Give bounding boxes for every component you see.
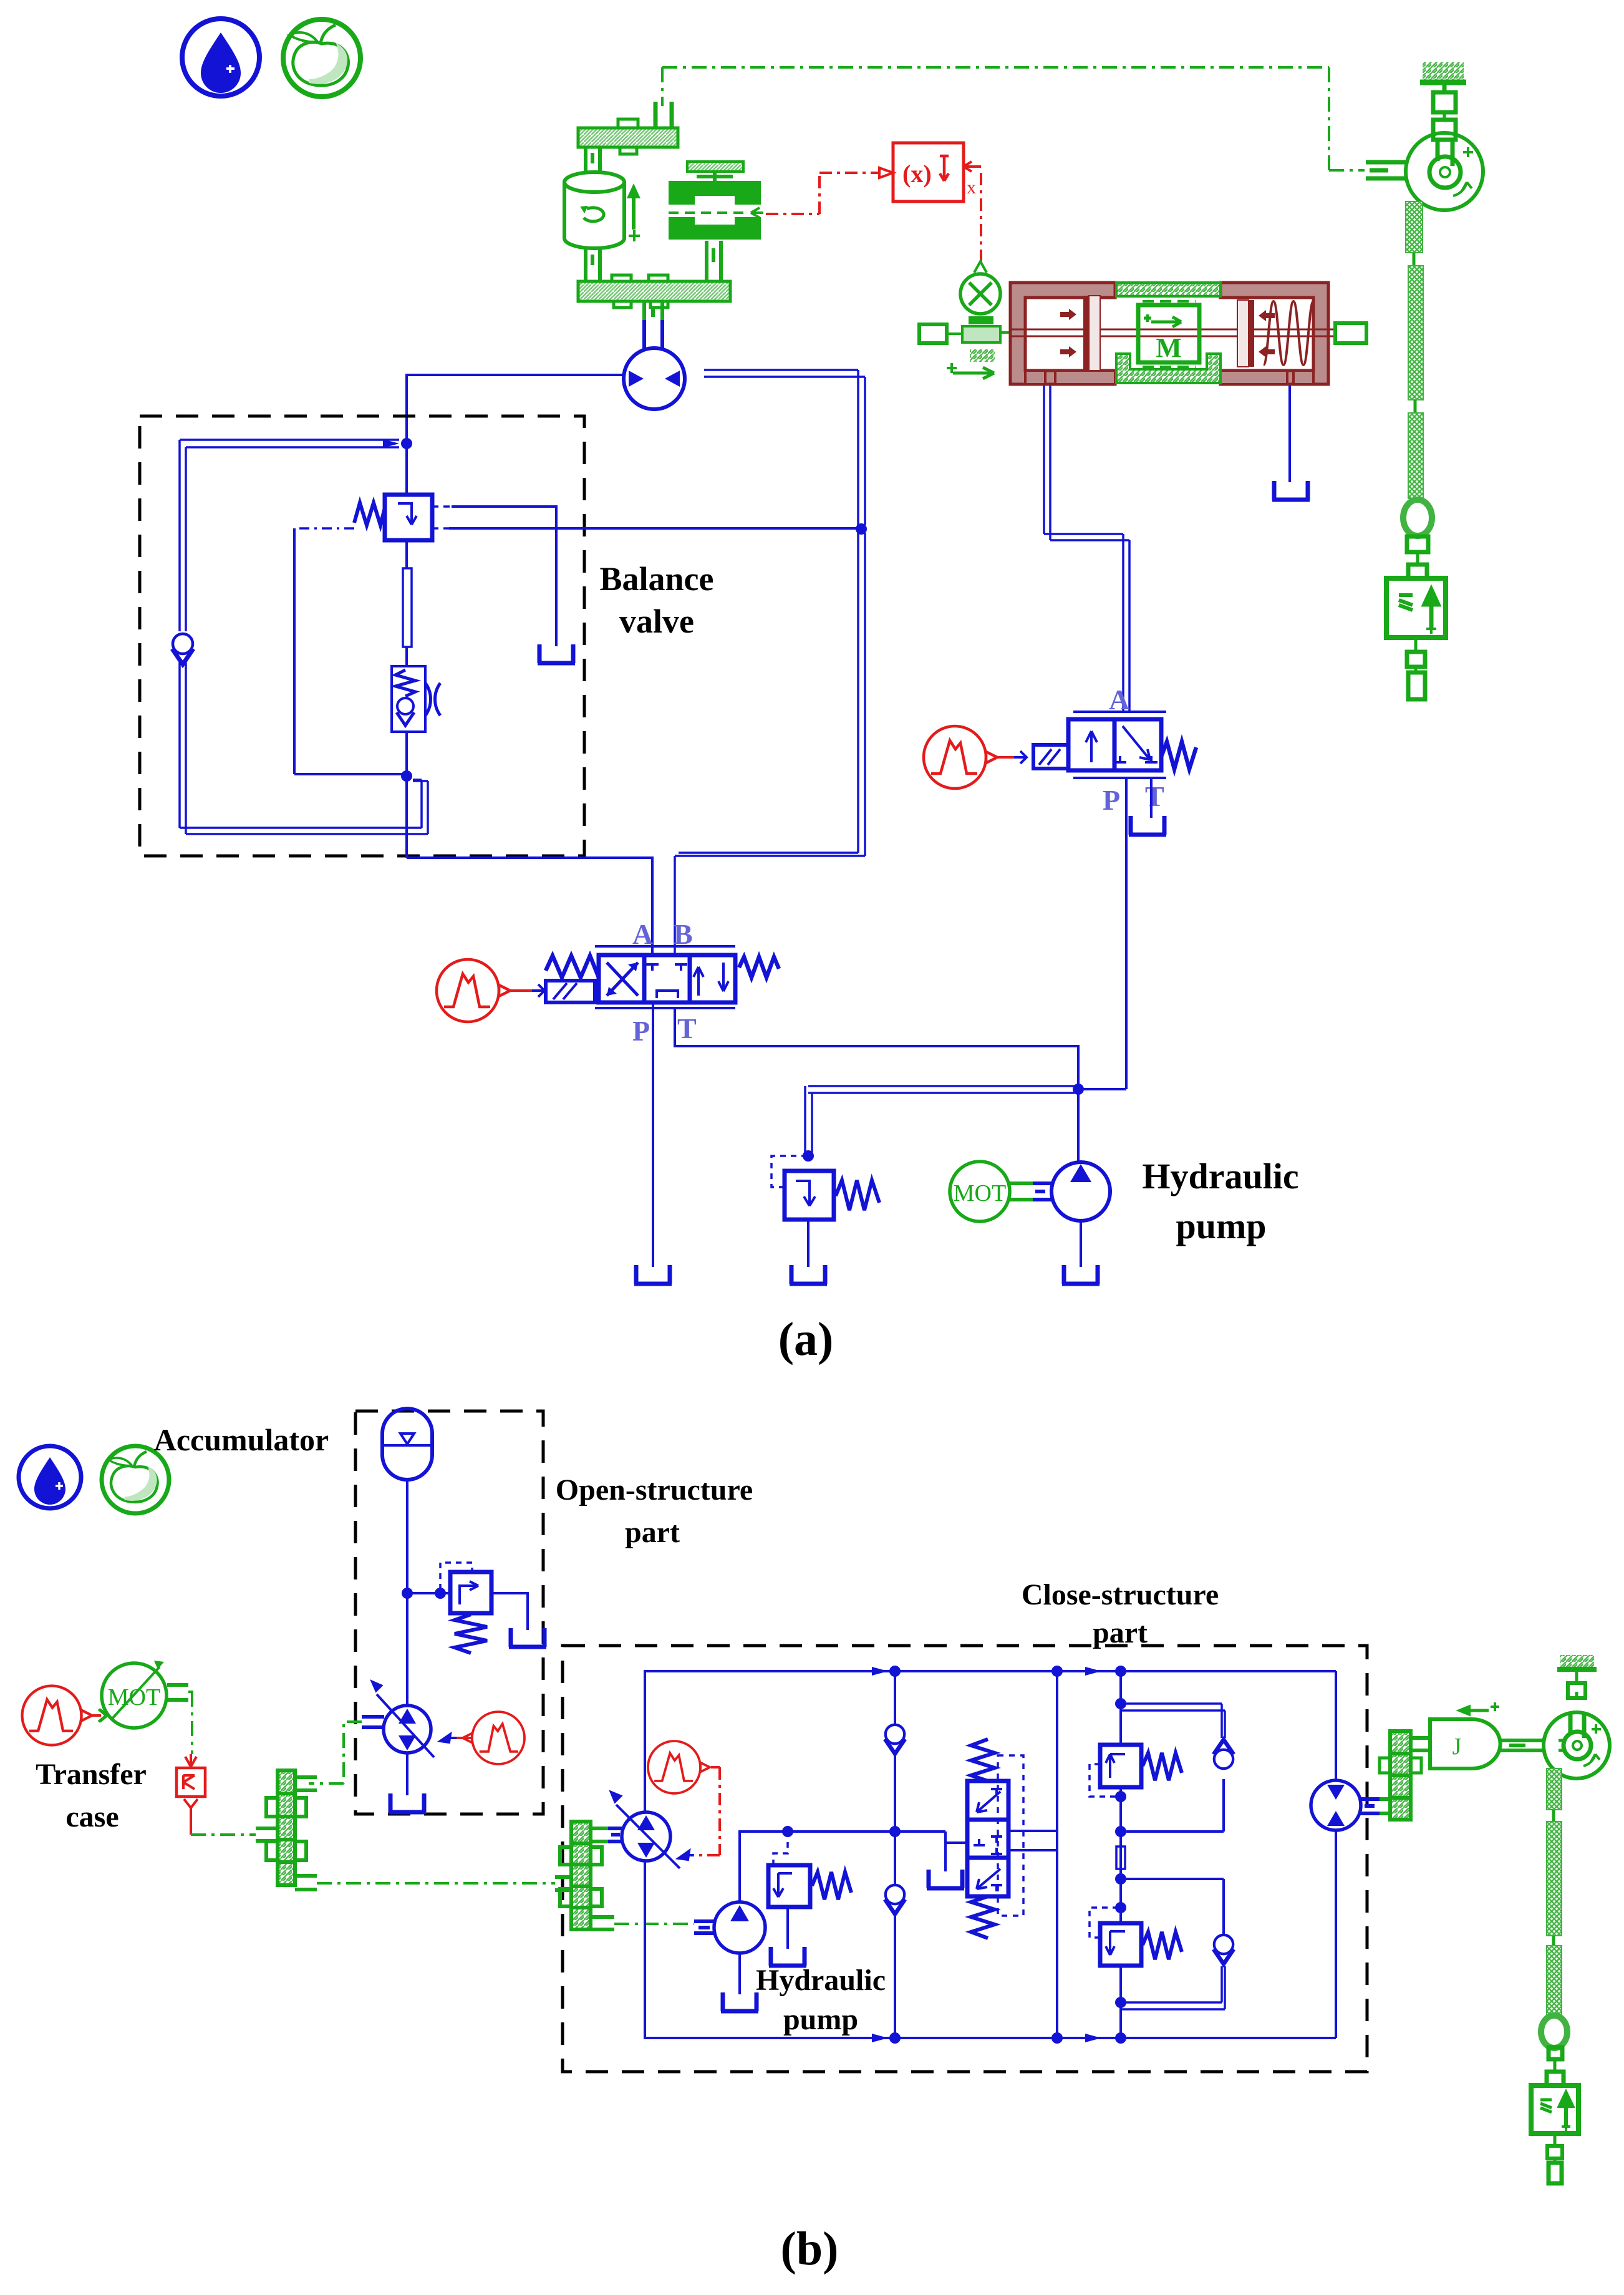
rotary load mass (drum cylinder): [564, 172, 624, 248]
input arrow into signal box: [879, 168, 893, 178]
winch drum ports a: [1366, 162, 1406, 178]
shackle b: [1547, 2047, 1564, 2085]
check valve balance: [172, 634, 193, 664]
dash-dot K to transfer gearbox: [191, 1833, 256, 1836]
Close-structure part label: [1022, 1578, 1219, 1649]
clutch lower plate: [669, 217, 761, 240]
hydraulic library icon (water drop): [182, 19, 259, 96]
winch ceiling anchor b: [1557, 1655, 1597, 1698]
svg-text:valve: valve: [619, 603, 694, 640]
rope b segment 1: [1547, 1769, 1562, 1810]
rope link a2: [1414, 400, 1417, 413]
arrow into multiplier: [974, 261, 987, 273]
svg-text:P: P: [1103, 784, 1120, 816]
junction dots bottom rail: [872, 2032, 1126, 2044]
accumulator line down: [406, 1480, 408, 1706]
shackle a: [1407, 536, 1428, 578]
rope b link 2: [1552, 1936, 1555, 1946]
brake piston line right to tank: [1288, 384, 1291, 482]
mass lower connector a: [1407, 638, 1425, 699]
tank under P: [634, 1265, 672, 1284]
motor input shaft (green to blue): [644, 301, 662, 349]
signal wire brake valve: [998, 751, 1027, 764]
brake return spring: [1264, 301, 1313, 365]
makeup check valve upper: [885, 1671, 905, 1832]
signal source main valve: [437, 959, 510, 1022]
tank under brake: [1272, 481, 1310, 500]
svg-text:MOT: MOT: [108, 1684, 160, 1710]
brake chamber arrows: [1060, 309, 1275, 357]
clutch engagement dashed line with arrow: [669, 208, 763, 218]
hydraulic motor (winch): [624, 348, 685, 409]
signal wire into valve: [511, 984, 544, 997]
brake right rod anchor: [1335, 323, 1366, 343]
pilot line to internal tank: [432, 507, 556, 646]
MOT b output ports: [167, 1685, 188, 1700]
junction dots top rail: [872, 1666, 1126, 1677]
svg-text:case: case: [65, 1800, 118, 1833]
svg-text:J: J: [1452, 1734, 1462, 1760]
wire motor to balance valve: [407, 375, 624, 440]
junction pilot b1: [435, 1588, 446, 1599]
charge pump output line: [740, 1832, 945, 1902]
close circuit motor: [1311, 1780, 1361, 1830]
svg-text:Open-structure: Open-structure: [556, 1473, 753, 1507]
brake friction pads green hatched: [1116, 283, 1220, 383]
open relief valve: [440, 1563, 491, 1653]
crossport relief lower: [1090, 1908, 1182, 1966]
tank charge line: [927, 1870, 964, 1888]
balance valve main vertical line: [407, 447, 652, 955]
rotary load shaft lower: [586, 248, 600, 281]
transfer case ratio K box: [176, 1768, 205, 1797]
clutch command dash-dot red: [766, 173, 878, 214]
accumulator: [382, 1409, 432, 1480]
inertia J: [1430, 1719, 1501, 1769]
supply pipe double line: [805, 1086, 1078, 1153]
torque arrow above J: [1457, 1702, 1499, 1715]
mechanical library icon (apple): [283, 19, 360, 97]
brake pilot pipe from brake to 3/2 valve: [1044, 384, 1129, 712]
main directional valve 4/3: [546, 946, 779, 1008]
relief a to tank: [807, 1220, 810, 1267]
junction accumulator: [402, 1588, 413, 1599]
svg-text:pump: pump: [1176, 1206, 1266, 1246]
charge pump ports: [694, 1921, 715, 1933]
mass lower connector b: [1547, 2133, 1562, 2183]
internal tank balance valve: [538, 644, 575, 663]
load mass a: [1386, 578, 1446, 638]
svg-text:A: A: [1109, 684, 1129, 716]
spring check with orifice: [392, 666, 440, 732]
rope b segment 2: [1547, 1822, 1562, 1936]
signal source transfer drive: [22, 1686, 92, 1745]
tank under pump a: [1062, 1265, 1100, 1284]
actuator stem under X: [947, 316, 1000, 379]
wire into MOT b: [92, 1709, 107, 1722]
signal function box (x): [893, 143, 964, 201]
mech signal to transfer gear: [309, 1722, 362, 1783]
system relief valve a: [771, 1156, 879, 1220]
rotary load shaft upper: [586, 147, 600, 171]
force multiplier X circle: [960, 274, 1000, 314]
rope segment 2 a: [1408, 266, 1423, 400]
variable pump open: [372, 1681, 434, 1757]
bypass check upper: [1121, 1704, 1234, 1832]
brake rod left anchor: [919, 324, 1012, 343]
winch drum pulley a: [1406, 133, 1483, 210]
shuttle supply riser: [1056, 1671, 1058, 2038]
svg-text:part: part: [1093, 1616, 1148, 1649]
Open-structure part label: [556, 1473, 753, 1549]
svg-text:part: part: [625, 1516, 680, 1549]
signal source brake valve: [924, 726, 997, 788]
dash-dot gearbox to charge pump: [614, 1923, 694, 1925]
mechanical library icon b: [102, 1446, 169, 1513]
svg-text:pump: pump: [783, 2003, 858, 2036]
top bearing flange (hatched support): [578, 119, 678, 154]
rope link a1: [1413, 253, 1416, 266]
svg-text:(b): (b): [781, 2223, 839, 2275]
svg-text:Accumulator: Accumulator: [154, 1422, 329, 1457]
node B junction: [401, 770, 412, 782]
velocity arrow with plus: [627, 183, 640, 241]
svg-text:A: A: [632, 918, 653, 950]
arrow into K box: [185, 1754, 196, 1767]
P line 3/2 to pump node: [1078, 778, 1126, 1089]
pilot line long to brake branch: [432, 527, 858, 530]
mechanical signal dash-dot line winch clutch control: [662, 67, 1365, 170]
pilot pipe loop (double line left): [180, 440, 428, 834]
prime mover MOT: [950, 1162, 1010, 1221]
bypass check lower: [1121, 1879, 1234, 2009]
tank under relief a: [790, 1265, 827, 1284]
svg-text:(a): (a): [778, 1313, 834, 1366]
top bearing flange stem: [655, 102, 672, 128]
branch to relief b1: [407, 1592, 450, 1594]
T line to pump node: [675, 1008, 1078, 1085]
x signal dash-dot down: [980, 173, 982, 262]
brake housing: [1010, 283, 1328, 384]
port labels A B P T: [632, 918, 697, 1047]
port labels 3/2 valve: [1103, 684, 1164, 816]
prime mover MOT b (variable): [102, 1661, 167, 1728]
Hydraulic pump label a: [1142, 1156, 1298, 1246]
brake push rod: [1012, 329, 1335, 336]
speed signal dash-dot to K: [188, 1692, 193, 1754]
bottom bearing flange (hatched support): [578, 275, 730, 308]
pump b1 to tank: [406, 1753, 408, 1795]
tank charge pump: [721, 1992, 758, 2011]
motor output shaft: [1361, 1799, 1390, 1813]
svg-text:B: B: [674, 918, 693, 950]
hydraulic library icon b: [19, 1446, 81, 1508]
winch gearbox right: [1380, 1731, 1431, 1820]
close variable pump: [611, 1792, 680, 1868]
winch ceiling anchor a: [1420, 62, 1466, 140]
svg-text:Close-structure: Close-structure: [1022, 1578, 1219, 1611]
rope b link 1: [1552, 1810, 1555, 1822]
signal wire to swash plate: [440, 1734, 472, 1742]
brake pistons: [1083, 296, 1254, 371]
svg-text:MOT: MOT: [954, 1180, 1006, 1206]
wire motor right to valve B (double): [675, 370, 865, 955]
blue shaft gearbox to close pump: [608, 1828, 622, 1841]
swash signal dash-dot: [685, 1767, 720, 1855]
node A junction: [383, 438, 412, 449]
crossport junctions: [1115, 1698, 1126, 2008]
pump supply node: [1073, 1084, 1084, 1095]
close circuit main loop: [645, 1671, 1336, 2038]
close structure dashed box: [563, 1646, 1367, 2072]
charge relief valve: [768, 1837, 851, 1949]
brake mass M block: [1138, 301, 1199, 367]
shuttle drain line to tank: [945, 1841, 967, 1844]
interstage orifice: [1116, 1846, 1125, 1869]
tank open pump: [389, 1793, 426, 1812]
svg-text:(x): (x): [902, 160, 932, 188]
load mass b: [1531, 2085, 1578, 2133]
junction pilot-brake node: [856, 523, 867, 535]
fixed orifice pipe: [403, 568, 412, 647]
T line to tank 3/2: [1150, 778, 1153, 818]
pilot dash-dot left loop: [294, 528, 404, 774]
svg-text:x: x: [967, 177, 976, 198]
rope b segment 3: [1547, 1946, 1562, 2016]
tank under 3/2 valve: [1129, 816, 1166, 835]
brake release valve 3/2: [1033, 712, 1196, 778]
clutch output shaft: [707, 241, 721, 281]
rope eye ring a: [1403, 500, 1432, 536]
junction relief a: [803, 1150, 814, 1162]
tank charge relief: [769, 1947, 806, 1966]
pump b1 ports: [362, 1717, 384, 1727]
K box output arrow: [184, 1799, 198, 1835]
svg-text:Transfer: Transfer: [36, 1758, 147, 1791]
pump drive gearbox middle: [555, 1822, 614, 1929]
svg-text:Hydraulic: Hydraulic: [756, 1964, 886, 1997]
winch drum port marks b: [1559, 1740, 1565, 1750]
charge line junctions: [782, 1826, 901, 1837]
svg-text:Balance: Balance: [600, 560, 714, 598]
rope segment 1 a: [1406, 201, 1423, 253]
winch drum pulley b: [1544, 1712, 1610, 1778]
rope eye ring b: [1541, 2016, 1567, 2048]
charge pump: [714, 1902, 765, 1994]
relief b1 outlet to tank: [491, 1593, 528, 1630]
Balance valve label: [600, 560, 714, 640]
tank open relief: [509, 1628, 546, 1647]
clutch anchor pad: [687, 162, 743, 181]
hot oil shuttle valve: [967, 1739, 1023, 1938]
arrow onto swash plate: [679, 1851, 694, 1860]
signal source close pump: [648, 1741, 710, 1793]
svg-text:T: T: [1145, 780, 1164, 812]
open structure dashed box: [355, 1411, 543, 1814]
balance valve dashed box: [140, 416, 584, 856]
hydraulic pump a: [1051, 1089, 1110, 1267]
balance relief valve (pilot operated): [354, 495, 432, 540]
Hydraulic pump label b: [756, 1964, 886, 2036]
shaft J to winch: [1500, 1740, 1544, 1750]
svg-text:P: P: [632, 1015, 650, 1047]
svg-text:T: T: [677, 1012, 697, 1044]
P line to tank: [652, 1002, 654, 1267]
crossport relief column: [1119, 1671, 1122, 2038]
makeup check valve lower: [885, 1832, 905, 2038]
clutch upper plate: [669, 181, 761, 205]
pump drive shaft: [1010, 1183, 1051, 1200]
transfer gearbox left: [256, 1770, 317, 1890]
svg-text:M: M: [1156, 332, 1182, 363]
signal source open pump: [463, 1712, 524, 1764]
svg-text:Hydraulic: Hydraulic: [1142, 1156, 1298, 1196]
dash-dot transfer to pump gearbox: [317, 1882, 555, 1885]
Transfer case label: [36, 1758, 147, 1833]
x feedback arrow right side: [964, 162, 981, 198]
crossport relief upper: [1090, 1745, 1182, 1797]
shuttle outlet lines: [1008, 1831, 1057, 1850]
rope segment 3 a: [1408, 413, 1423, 498]
